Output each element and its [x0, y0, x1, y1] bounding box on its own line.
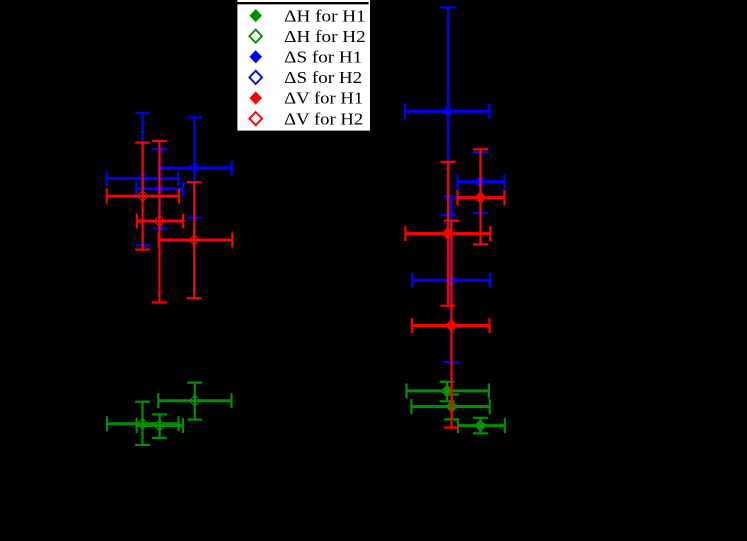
- legend box: [237, 0, 370, 131]
- point B3 open blue diamond with xy error bars: [136, 149, 183, 228]
- point B6 filled blue diamond with xy error bars: [412, 196, 490, 362]
- legend row 2: ΔH for H2: [249, 30, 262, 43]
- point B2 open blue diamond with xy error bars: [107, 113, 179, 245]
- point B5 filled blue diamond with xy error bars: [458, 152, 505, 213]
- svg-text:ΔS for H1: ΔS for H1: [284, 48, 362, 67]
- legend row 1: ΔH for H1: [249, 9, 262, 22]
- legend row 3: ΔS for H1: [249, 50, 262, 63]
- svg-text:ΔV for H1: ΔV for H1: [284, 89, 363, 108]
- legend row 6: ΔV for H2: [249, 112, 262, 125]
- svg-text:ΔV for H2: ΔV for H2: [284, 109, 363, 128]
- legend row 4: ΔS for H2: [249, 71, 262, 84]
- point R5 filled red diamond with xy error bars: [458, 149, 505, 244]
- svg-text:ΔH for H1: ΔH for H1: [284, 6, 366, 25]
- point B1 open blue diamond with xy error bars: [159, 117, 232, 217]
- point R6 filled red diamond with xy error bars: [412, 221, 490, 428]
- svg-text:ΔS for H2: ΔS for H2: [284, 68, 362, 87]
- point G3 open green diamond with xy error bars: [137, 414, 183, 438]
- point R2 open red diamond with xy error bars: [137, 141, 183, 303]
- point G4 filled green diamond with xy error bars: [406, 382, 488, 402]
- legend border top line: [237, 2, 368, 4]
- point R1 open red diamond with xy error bars: [107, 143, 179, 250]
- svg-text:ΔH for H2: ΔH for H2: [284, 27, 366, 46]
- legend row 5: ΔV for H1: [249, 91, 262, 104]
- point G5 filled green diamond with xy error bars: [411, 395, 489, 420]
- point R4 filled red diamond with xy error bars: [405, 162, 490, 306]
- point G2 open green diamond with xy error bars: [107, 402, 178, 445]
- point G6 filled green diamond with xy error bars: [458, 418, 505, 434]
- point B4 filled blue diamond with xy error bars: [405, 7, 490, 215]
- point G1 open green diamond with xy error bars: [158, 383, 231, 420]
- point R3 open red diamond with xy error bars: [159, 182, 233, 298]
